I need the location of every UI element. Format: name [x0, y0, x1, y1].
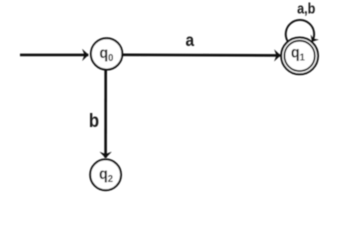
svg-text:a,b: a,b [297, 1, 315, 17]
svg-text:a: a [186, 31, 195, 50]
svg-text:b: b [89, 110, 99, 131]
